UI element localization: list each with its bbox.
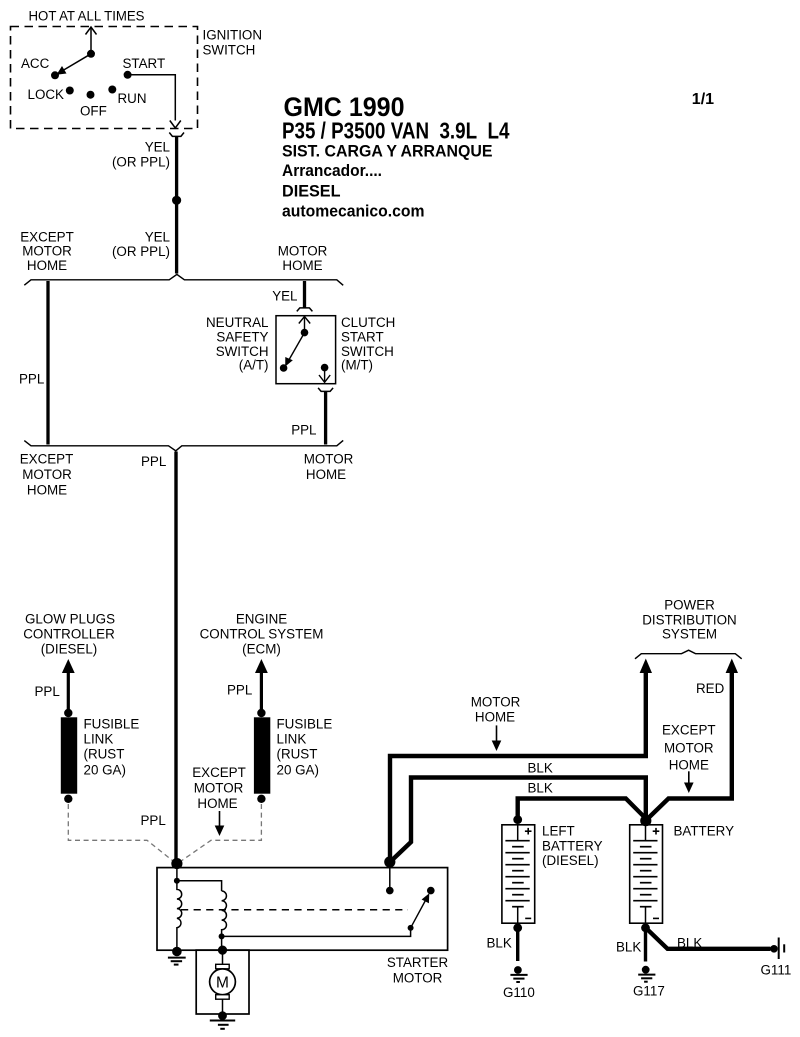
svg-text:(A/T): (A/T)	[239, 358, 269, 373]
label MOTOR HOME (battery feed)	[471, 695, 521, 725]
svg-text:CONTROLLER: CONTROLLER	[23, 626, 115, 641]
svg-text:MOTOR: MOTOR	[304, 452, 354, 467]
label IGNITION SWITCH	[203, 28, 263, 58]
arrow wire BLK to power distribution (motor home)	[390, 659, 652, 862]
label EXCEPT MOTOR HOME (top left)	[20, 230, 74, 274]
solenoid moving contact arm	[408, 893, 430, 931]
wire from START contact down out of ignition switch	[128, 75, 181, 128]
arrow EXCEPT MOTOR HOME pointing at RED wire	[684, 771, 694, 793]
ground G117	[638, 966, 655, 982]
dashed wire from ECM fusible link to starter junction	[179, 804, 261, 863]
svg-text:BLK: BLK	[616, 940, 641, 955]
label EXCEPT MOTOR HOME (center)	[192, 765, 246, 811]
svg-text:EXCEPT: EXCEPT	[20, 230, 74, 245]
label MOTOR HOME (top right)	[278, 244, 328, 274]
svg-text:SWITCH: SWITCH	[203, 43, 256, 58]
starter motor box	[157, 868, 448, 951]
svg-text:PPL: PPL	[141, 813, 166, 828]
svg-text:RUN: RUN	[118, 91, 147, 106]
svg-text:HOME: HOME	[475, 710, 515, 725]
svg-text:(DIESEL): (DIESEL)	[41, 641, 98, 656]
svg-text:BLK: BLK	[528, 780, 553, 795]
svg-text:START: START	[123, 56, 166, 71]
ACC contact	[51, 71, 59, 79]
svg-text:PPL: PPL	[291, 423, 316, 438]
svg-text:20 GA): 20 GA)	[84, 763, 126, 778]
motor M	[210, 950, 236, 1015]
switch input pin arrow inside box	[299, 317, 310, 333]
wire YEL vertical from ignition switch	[175, 137, 178, 274]
svg-text:(DIESEL): (DIESEL)	[542, 853, 599, 868]
LOCK contact	[66, 87, 74, 95]
motor ground	[210, 1011, 235, 1029]
right battery negative terminal	[641, 923, 650, 932]
svg-text:GLOW PLUGS: GLOW PLUGS	[25, 611, 115, 626]
solenoid fixed contact	[427, 887, 435, 895]
label FUSIBLE LINK (RUST 20 GA) left	[84, 717, 140, 778]
svg-text:STARTER: STARTER	[387, 955, 449, 970]
label ENGINE CONTROL SYSTEM (ECM)	[200, 611, 324, 656]
svg-text:G110: G110	[503, 985, 535, 1000]
svg-text:CONTROL SYSTEM: CONTROL SYSTEM	[200, 626, 324, 641]
wire BLK from left battery positive	[518, 799, 646, 821]
wire YEL right branch	[303, 281, 306, 308]
svg-text:1/1: 1/1	[692, 91, 714, 108]
svg-text:automecanico.com: automecanico.com	[282, 202, 425, 221]
ground terminal of hold-in winding	[168, 947, 186, 965]
connector half above neutral safety switch	[297, 308, 313, 312]
M/T contact	[321, 364, 329, 372]
label STARTER MOTOR	[387, 955, 449, 985]
svg-text:LINK: LINK	[84, 732, 114, 747]
label EXCEPT MOTOR HOME (right)	[662, 723, 716, 773]
svg-text:YEL: YEL	[145, 230, 170, 245]
svg-text:HOME: HOME	[306, 467, 346, 482]
label NEUTRAL SAFETY SWITCH (A/T)	[206, 315, 269, 373]
svg-text:CLUTCH: CLUTCH	[341, 315, 395, 330]
svg-text:POWER: POWER	[664, 598, 715, 613]
fusible link (ECM) top terminal	[257, 709, 265, 717]
pull-in winding coil	[222, 891, 227, 936]
wire to pull-in winding	[177, 881, 222, 891]
label YEL (OR PPL)	[112, 140, 170, 170]
fusible link (glow plugs) body	[61, 717, 77, 793]
svg-text:YEL: YEL	[272, 289, 297, 304]
left battery body	[502, 825, 535, 923]
svg-text:HOME: HOME	[27, 483, 67, 498]
arrow EXCEPT MOTOR HOME down	[215, 811, 225, 836]
svg-text:Arrancador....: Arrancador....	[282, 161, 382, 180]
svg-text:M: M	[216, 974, 229, 991]
svg-text:FUSIBLE: FUSIBLE	[277, 717, 333, 732]
ground G110	[510, 966, 527, 982]
label EXCEPT MOTOR HOME (below merge)	[20, 452, 74, 498]
svg-text:SAFETY: SAFETY	[216, 330, 268, 345]
arrow wire RED battery to power distribution (except motor home)	[646, 659, 738, 821]
wire PPL from clutch start switch	[324, 392, 327, 445]
fusible link (ECM) body	[254, 717, 270, 793]
svg-text:HOME: HOME	[27, 258, 67, 273]
svg-text:(RUST: (RUST	[84, 747, 125, 762]
svg-text:HOME: HOME	[282, 258, 322, 273]
arrow to engine control system	[255, 659, 268, 713]
svg-text:MOTOR: MOTOR	[22, 467, 72, 482]
svg-text:BATTERY: BATTERY	[674, 824, 735, 839]
left battery positive terminal	[513, 815, 522, 824]
svg-text:MOTOR: MOTOR	[278, 244, 328, 259]
wire B+ stud into solenoid contact	[386, 868, 394, 895]
wire PPL left branch	[46, 281, 49, 445]
label YEL (OR PPL) second	[112, 230, 170, 260]
svg-text:(M/T): (M/T)	[341, 358, 373, 373]
wire from windings to contact arm	[222, 928, 411, 937]
ignition switch wiper arm arrow to ACC	[57, 54, 92, 75]
arrow MOTOR HOME pointing at BLK wire	[492, 725, 502, 751]
brace splitting YEL wire	[24, 274, 343, 285]
wire BLK left battery to ground	[516, 928, 519, 961]
svg-text:DISTRIBUTION: DISTRIBUTION	[642, 612, 736, 627]
svg-text:ACC: ACC	[21, 56, 50, 71]
svg-text:NEUTRAL: NEUTRAL	[206, 315, 269, 330]
svg-text:SYSTEM: SYSTEM	[662, 627, 717, 642]
splice junction on YEL wire	[172, 196, 181, 205]
hold-in winding coil	[177, 881, 182, 950]
svg-text:PPL: PPL	[35, 684, 60, 699]
label POWER DISTRIBUTION SYSTEM	[642, 598, 736, 642]
svg-text:PPL: PPL	[227, 683, 252, 698]
wire PPL main vertical to starter	[174, 452, 177, 865]
ignition switch wiper pivot contact	[87, 50, 95, 58]
label LEFT BATTERY (DIESEL)	[542, 824, 603, 868]
svg-text:SIST. CARGA Y ARRANQUE: SIST. CARGA Y ARRANQUE	[282, 142, 493, 161]
svg-text:PPL: PPL	[19, 372, 44, 387]
label FUSIBLE LINK (RUST 20 GA) right	[277, 717, 333, 778]
motor supply node on box edge	[218, 946, 227, 955]
wire BLK right battery to ground	[644, 928, 647, 962]
wire BLK from starter to battery (except motor home)	[390, 778, 646, 863]
junction at starter solenoid S terminal	[171, 858, 182, 869]
svg-text:OFF: OFF	[80, 104, 107, 119]
svg-text:BATTERY: BATTERY	[542, 838, 603, 853]
svg-text:MOTOR: MOTOR	[194, 781, 244, 796]
battery B+ stud junction	[384, 856, 395, 867]
left battery negative terminal	[513, 923, 522, 932]
svg-text:EXCEPT: EXCEPT	[20, 452, 74, 467]
svg-text:EXCEPT: EXCEPT	[662, 723, 716, 738]
svg-text:EXCEPT: EXCEPT	[192, 765, 246, 780]
START contact	[124, 71, 132, 79]
fusible link (ECM) bottom terminal	[257, 795, 265, 803]
svg-text:IGNITION: IGNITION	[203, 28, 263, 43]
svg-text:(OR PPL): (OR PPL)	[112, 244, 170, 259]
svg-text:P35 / P3500 VAN 3.9L L4: P35 / P3500 VAN 3.9L L4	[282, 117, 510, 143]
svg-text:RED: RED	[696, 681, 725, 696]
OFF contact	[87, 91, 95, 99]
svg-text:PPL: PPL	[141, 454, 166, 469]
svg-text:(RUST: (RUST	[277, 747, 318, 762]
svg-text:START: START	[341, 330, 384, 345]
neutral safety switch box	[276, 316, 336, 384]
svg-text:MOTOR: MOTOR	[471, 695, 521, 710]
fusible link (glow plugs) top terminal	[64, 709, 72, 717]
svg-text:(ECM): (ECM)	[242, 641, 281, 656]
svg-text:MOTOR: MOTOR	[393, 970, 443, 985]
svg-text:MOTOR: MOTOR	[22, 244, 72, 259]
svg-text:G111: G111	[761, 963, 792, 978]
svg-text:BLK: BLK	[677, 935, 702, 950]
label MOTOR HOME (below merge right)	[304, 452, 354, 483]
svg-text:(OR PPL): (OR PPL)	[112, 155, 170, 170]
svg-text:MOTOR: MOTOR	[664, 740, 714, 755]
svg-text:HOME: HOME	[669, 758, 709, 773]
winding junction node	[219, 933, 225, 939]
motor sub-box	[196, 950, 249, 1014]
A/T switch arm arrow	[285, 333, 304, 367]
label CLUTCH START SWITCH (M/T)	[341, 315, 395, 373]
svg-text:FUSIBLE: FUSIBLE	[84, 717, 140, 732]
svg-text:ENGINE: ENGINE	[236, 611, 287, 626]
svg-text:LOCK: LOCK	[28, 87, 65, 102]
RUN contact	[108, 86, 116, 94]
svg-text:YEL: YEL	[145, 140, 170, 155]
arrow to glow plugs controller	[62, 659, 75, 713]
brace power distribution system	[635, 650, 742, 659]
svg-text:BLK: BLK	[528, 760, 553, 775]
solenoid actuation dashed link	[181, 909, 408, 911]
connector half below ignition switch	[169, 133, 184, 137]
ignition switch feed arrow (up to HOT AT ALL TIMES)	[86, 27, 97, 54]
svg-text:LINK: LINK	[277, 732, 307, 747]
wire winding junction to motor node	[221, 936, 223, 950]
svg-text:HOT AT ALL TIMES: HOT AT ALL TIMES	[29, 9, 145, 24]
svg-text:DIESEL: DIESEL	[282, 181, 341, 200]
connector half below clutch start switch	[318, 388, 333, 392]
label GLOW PLUGS CONTROLLER (DIESEL)	[23, 611, 115, 656]
svg-text:20 GA): 20 GA)	[277, 763, 319, 778]
right battery body	[630, 825, 663, 923]
ignition switch dashed box	[11, 27, 198, 129]
A/T contact	[280, 364, 288, 372]
wire BLK right battery to G111	[646, 928, 771, 949]
M/T output pin arrow	[319, 368, 330, 383]
switch common contact	[301, 329, 309, 337]
dashed wire from glow plugs fusible link to starter junction	[68, 804, 175, 863]
solenoid input junction inside box	[174, 864, 180, 884]
svg-text:LEFT: LEFT	[542, 824, 575, 839]
svg-text:BLK: BLK	[487, 936, 512, 951]
svg-text:HOME: HOME	[197, 796, 237, 811]
fusible link (glow plugs) bottom terminal	[64, 795, 72, 803]
ground G111 remote terminal	[770, 938, 784, 960]
brace merging PPL wires	[24, 440, 343, 450]
svg-text:G117: G117	[633, 983, 665, 998]
junction at battery positive	[640, 815, 651, 826]
